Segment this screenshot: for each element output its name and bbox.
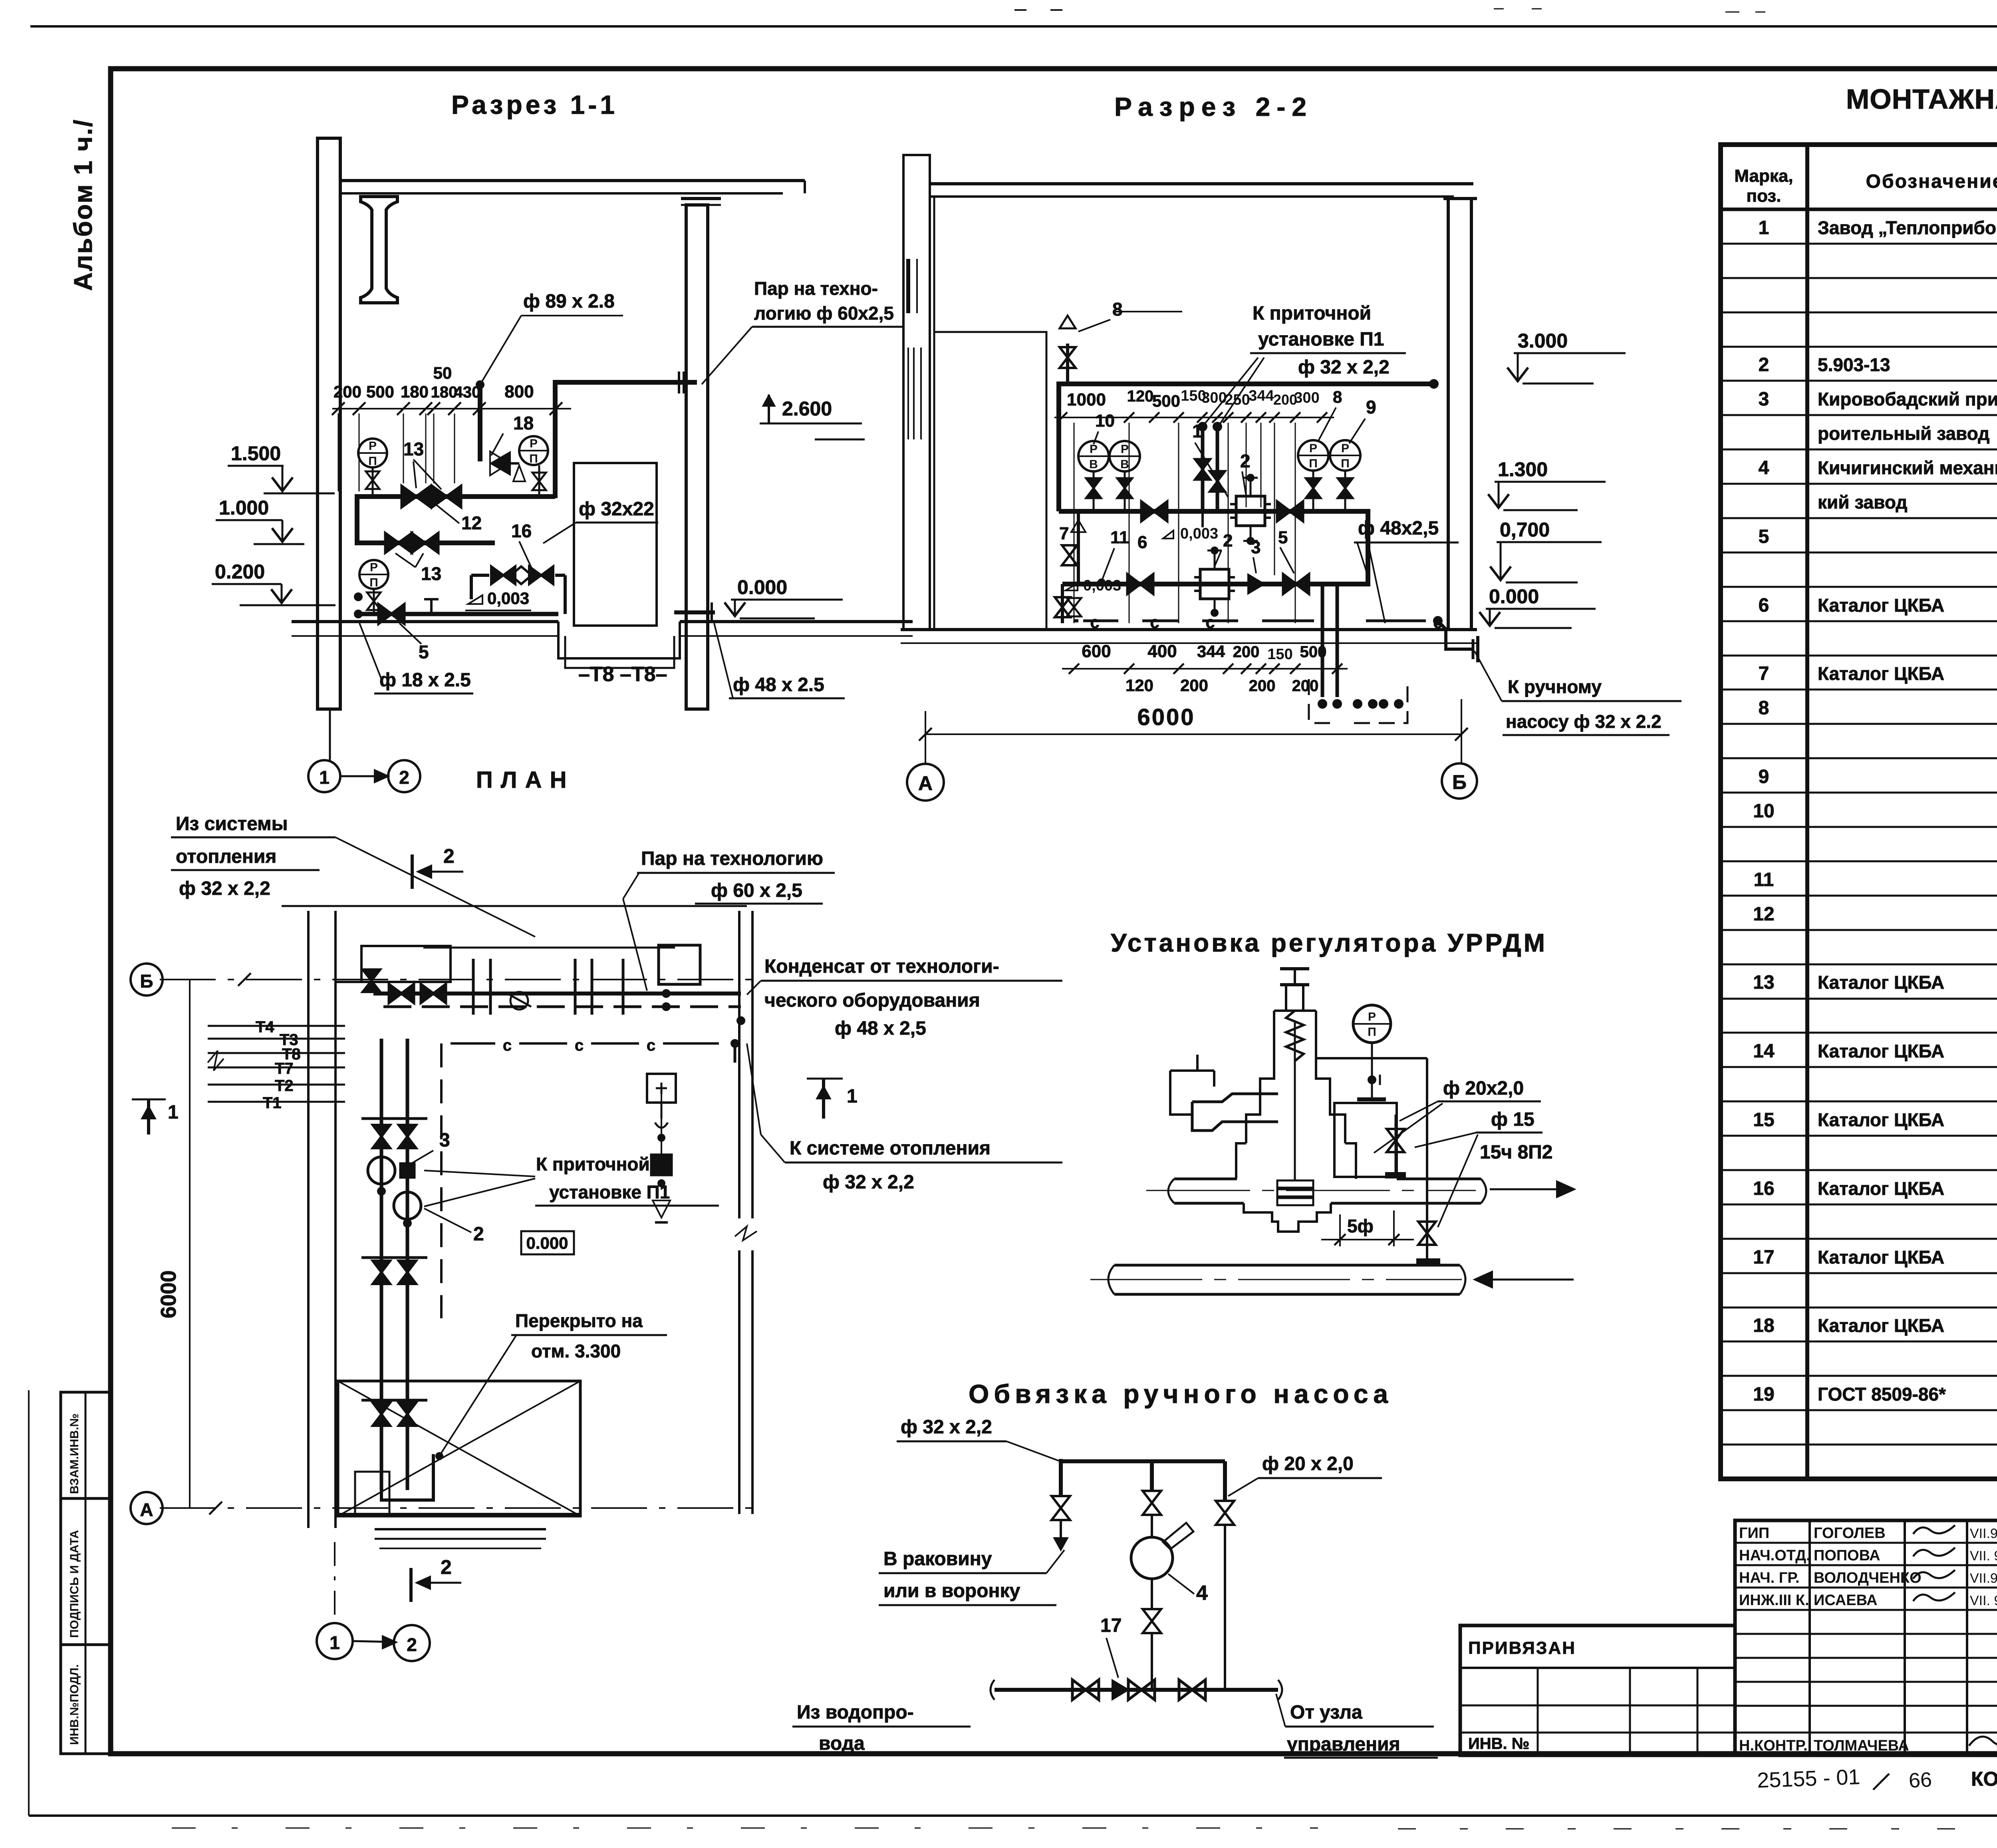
mud trap pos 2 box [1236,496,1265,526]
manifold risers [380,1039,383,1490]
valve on middle pipe [1141,502,1167,521]
svg-text:3: 3 [439,1130,450,1151]
svg-text:Марка,: Марка, [1734,166,1793,186]
svg-text:От узла: От узла [1290,1702,1362,1723]
pump pos 2 box lower [1200,569,1229,599]
steam pipe to right Пар на технологию [555,380,697,385]
left lower riser with safety [1077,511,1080,584]
svg-text:Конденсат от технологи-: Конденсат от технологи- [764,956,999,977]
dimension line 600 400 344 200 150 500 [1062,668,1348,670]
condensate trap assembly right [647,1074,676,1103]
pipe to right through trench [674,610,715,614]
dashed box with dots [1309,679,1330,723]
svg-text:8: 8 [1112,299,1123,320]
left drop to sink [1059,1459,1063,1496]
svg-text:2: 2 [407,1634,417,1655]
svg-text:500: 500 [366,382,394,401]
safety valve assembly pos 18 [490,451,509,475]
right drop [1223,1461,1227,1500]
svg-text:0,003: 0,003 [1180,525,1218,542]
svg-text:6: 6 [1137,533,1147,552]
svg-text:5.903-13: 5.903-13 [1818,354,1890,375]
svg-text:1: 1 [1192,421,1203,441]
svg-text:П: П [1309,457,1318,470]
svg-text:К приточной: К приточной [536,1154,650,1174]
svg-text:Т7: Т7 [275,1060,294,1077]
right column [686,205,708,709]
lower pipe level 0.700 [1062,582,1368,586]
pump top pipe [1061,1459,1225,1463]
left column lower extension [329,709,331,761]
svg-text:25155 - 01: 25155 - 01 [1757,1765,1860,1792]
svg-text:ИСАЕВА: ИСАЕВА [1814,1592,1878,1609]
svg-text:П: П [529,452,538,465]
svg-text:логию ф 60х2,5: логию ф 60х2,5 [754,303,894,324]
svg-text:5: 5 [1278,528,1288,547]
svg-text:2: 2 [473,1224,484,1245]
svg-text:200: 200 [1180,676,1208,695]
main pipe level 1.500 [357,494,555,499]
spec table header bottom line [1721,208,1997,211]
heat network pipes T lines [208,1025,345,1027]
dimension 6000 razrez2 [925,733,1461,735]
dimension line razrez2 [1054,417,1334,418]
spec table column lines [1805,145,1809,1479]
svg-text:ф 32 х 2,2: ф 32 х 2,2 [1298,357,1390,378]
plan right wall [738,911,740,1218]
svg-text:1: 1 [330,1632,340,1653]
svg-text:0.000: 0.000 [1489,585,1539,608]
section mark 2 upper [411,854,414,889]
svg-text:КОПИРОВАЛ : МАТВЕЕВА: КОПИРОВАЛ : МАТВЕЕВА [1971,1768,1997,1790]
svg-text:180: 180 [431,384,458,401]
dash line from tank to circle 1 [334,1542,335,1623]
manifold valves middle [373,1261,390,1284]
svg-text:200: 200 [333,382,361,401]
sheet outer border left line [28,1390,30,1816]
left stamp box ПОДПИСЬ И ДАТА [61,1498,111,1645]
svg-text:Каталог ЦКБА: Каталог ЦКБА [1818,1178,1944,1199]
actuator spring [1286,1011,1304,1061]
svg-text:ф 18 х 2.5: ф 18 х 2.5 [379,670,471,691]
plan bottom circles 1 2 [317,1623,353,1659]
svg-text:6000: 6000 [1137,704,1195,730]
svg-text:200: 200 [1273,391,1297,408]
svg-text:344: 344 [1249,387,1274,404]
svg-text:МОНТАЖНАЯ СПЕЦИФИКАЦИЯ И.Т.П: МОНТАЖНАЯ СПЕЦИФИКАЦИЯ И.Т.П. [1846,83,1997,115]
svg-text:ф 60 х 2,5: ф 60 х 2,5 [711,880,802,901]
section mark 1 left [132,1099,166,1101]
svg-text:Перекрыто на: Перекрыто на [515,1310,643,1331]
gauge PP left upper [358,439,387,467]
svg-text:10: 10 [1095,411,1115,431]
plan top boundary line [282,905,747,907]
pilot chamber left box [1170,1071,1192,1115]
feed risers to P1 [1201,427,1205,509]
ceiling beam [930,182,1473,185]
svg-text:4: 4 [1196,1582,1208,1605]
svg-text:ИНЖ.III К.: ИНЖ.III К. [1739,1592,1809,1609]
break mark on T lines [208,1051,224,1071]
svg-text:ф 20 х 2,0: ф 20 х 2,0 [1262,1453,1354,1474]
water meter circle pos 3 [368,1157,395,1184]
svg-text:Р: Р [1121,443,1129,456]
svg-text:18: 18 [513,413,534,433]
svg-text:К ручному: К ручному [1508,676,1602,697]
section mark 1 middle with arrow [807,1078,843,1080]
middle pipe level 1.300 [1059,509,1368,514]
grid circle Б razrez2 [1442,763,1477,799]
svg-text:с: с [647,1037,655,1054]
svg-text:установке П1: установке П1 [1258,329,1384,350]
small fittings on middle pipe [1201,509,1204,527]
svg-text:2: 2 [1759,354,1769,376]
svg-text:3.000: 3.000 [1518,330,1568,352]
privyazan box [1460,1625,1735,1755]
svg-text:Б: Б [1452,771,1467,793]
svg-text:ф 32 х 2,2: ф 32 х 2,2 [179,878,270,899]
svg-text:500: 500 [1300,643,1327,661]
svg-text:3: 3 [1759,389,1769,410]
svg-text:4: 4 [1759,457,1769,479]
gauge РП pair right [1298,440,1328,471]
svg-text:1.500: 1.500 [231,442,281,465]
svg-text:9: 9 [1366,397,1376,417]
svg-text:5: 5 [1759,526,1769,547]
svg-text:ф 32 х 2,2: ф 32 х 2,2 [823,1172,914,1193]
svg-text:0,003: 0,003 [487,589,529,608]
svg-text:300: 300 [1294,389,1319,406]
regulator body bottom [1244,1203,1331,1232]
svg-text:ИНВ. №: ИНВ. № [1468,1735,1529,1753]
tank rectangle with cross [338,1381,580,1516]
ceiling beam top chord [340,179,805,182]
svg-text:В раковину: В раковину [883,1548,992,1570]
foundation hatch below tank [375,1528,546,1530]
svg-text:6000: 6000 [157,1270,181,1318]
svg-text:установке П1: установке П1 [549,1182,670,1202]
svg-text:180: 180 [401,382,429,401]
svg-text:ф 48х2,5: ф 48х2,5 [1358,518,1439,539]
svg-text:–Т8 –Т8–: –Т8 –Т8– [578,663,667,686]
svg-text:2: 2 [1240,451,1251,471]
dimension line top of unit [332,408,571,409]
svg-text:Каталог ЦКБА: Каталог ЦКБА [1818,595,1944,616]
svg-text:Б: Б [140,971,153,992]
svg-text:Р: Р [1368,1010,1376,1023]
svg-text:ф 20х2,0: ф 20х2,0 [1443,1078,1524,1099]
title block signature table [1735,1520,1997,1755]
pipe trench T8 [558,622,680,658]
floor second line [292,635,558,637]
floor lines [901,628,1477,631]
sheet outer border top line [30,25,1997,28]
svg-text:6: 6 [1759,595,1769,616]
check valve pos 3 filled [1248,574,1264,594]
svg-text:Каталог ЦКБА: Каталог ЦКБА [1818,972,1944,993]
diaphragm chamber [1192,1094,1278,1102]
drain pipe level 0.200 [356,612,558,616]
svg-text:0.000: 0.000 [526,1234,568,1252]
svg-text:17: 17 [1753,1247,1774,1268]
leader kondensat to pipe [747,981,761,995]
svg-text:Каталог ЦКБА: Каталог ЦКБА [1818,1041,1944,1061]
scan artifact dashes bottom edge [172,1828,1318,1829]
svg-text:поз.: поз. [1747,186,1781,206]
svg-text:НАЧ.ОТД.: НАЧ.ОТД. [1739,1547,1810,1564]
svg-text:1: 1 [168,1102,179,1123]
svg-text:9: 9 [1759,766,1769,787]
svg-text:насосу ф 32 х 2.2: насосу ф 32 х 2.2 [1506,711,1662,732]
svg-text:VII. 91: VII. 91 [1970,1548,1997,1564]
plan header circles 1 and 2 [308,760,340,792]
middle drop [1150,1461,1154,1490]
svg-text:16: 16 [511,521,532,541]
manifold valves lower [373,1403,390,1426]
svg-text:ф 48 х 2.5: ф 48 х 2.5 [733,674,824,695]
svg-text:П: П [1341,457,1350,470]
pump bottom pipe [995,1688,1278,1692]
svg-text:344: 344 [1197,642,1225,661]
plan right vertical pipe [734,1043,736,1063]
svg-text:Из системы: Из системы [176,813,288,835]
condensate trap row [491,566,515,584]
svg-text:12: 12 [1753,904,1774,925]
svg-text:1000: 1000 [1067,390,1106,409]
left wall inner lines [906,259,910,313]
valve pos 5 [379,604,404,624]
svg-text:1.000: 1.000 [219,497,269,519]
svg-text:Каталог ЦКБА: Каталог ЦКБА [1818,1315,1944,1336]
leaders to feed risers [1203,358,1258,425]
gauge PP second [519,436,548,465]
pipe end flange [678,372,680,393]
svg-text:VII.91: VII.91 [1970,1571,1997,1586]
leader from iz sistemy to riser [335,837,535,937]
grid line А dash-dot [160,1507,759,1509]
left downfeed [1056,382,1061,511]
svg-text:12: 12 [461,513,482,533]
svg-text:VII. 91: VII. 91 [1970,1593,1997,1608]
outlet box [1334,1103,1397,1177]
svg-text:НАЧ. ГР.: НАЧ. ГР. [1739,1570,1800,1586]
svg-text:7: 7 [1759,663,1769,684]
condensate drop to fitting [1438,621,1473,649]
svg-text:Из водопро-: Из водопро- [797,1702,914,1723]
svg-text:А: А [140,1499,153,1520]
valve internals stack [1277,1180,1313,1188]
svg-text:3: 3 [1251,538,1261,557]
lower pipe centerline and flow arrow [1090,1279,1462,1280]
scan artifact dashes top edge [1014,9,1086,11]
pump circle pos 2 [394,1192,421,1219]
svg-text:13: 13 [421,563,441,584]
svg-text:18: 18 [1753,1315,1774,1336]
equipment outline box [574,463,657,626]
plan top wall details [335,981,451,983]
gate valve wedge on middle pipe [1277,502,1303,521]
svg-text:с: с [1150,613,1159,632]
svg-text:ПРИВЯЗАН: ПРИВЯЗАН [1468,1638,1576,1658]
svg-text:120: 120 [1127,387,1154,405]
leader 11 to fitting [1102,548,1114,579]
grid circle Б plan [131,964,163,996]
dimension guides [338,413,339,491]
svg-text:Р: Р [1090,443,1098,456]
guides from dim line down [1074,423,1075,623]
svg-text:Обозначение: Обозначение [1866,171,1997,192]
left wall [903,155,930,630]
svg-text:Пар на техно-: Пар на техно- [754,278,878,299]
svg-text:К приточной: К приточной [1253,303,1371,324]
leader to tank [441,1335,516,1454]
svg-text:с: с [503,1037,512,1054]
svg-text:кий завод: кий завод [1818,492,1908,513]
svg-text:2: 2 [399,767,409,788]
floor line right segment [680,620,913,623]
svg-text:Р: Р [1309,442,1317,455]
svg-text:Каталог ЦКБА: Каталог ЦКБА [1818,1247,1944,1268]
svg-text:Р: Р [1341,442,1349,455]
svg-text:с: с [1205,613,1215,632]
svg-text:Установка регулятора УРРДМ: Установка регулятора УРРДМ [1111,928,1547,957]
svg-text:1: 1 [319,767,330,788]
svg-text:200: 200 [1249,677,1276,695]
svg-text:П: П [1368,1025,1376,1039]
valve 13 pair on main pipe [402,486,431,507]
plan left wall [307,911,310,1528]
leader k sisteme [761,1135,785,1162]
floor line left segment [292,620,558,623]
svg-text:Разрез 1-1: Разрез 1-1 [451,90,618,119]
svg-text:ческого оборудования: ческого оборудования [764,990,980,1011]
plan bottom section mark 2 [409,1568,413,1602]
actuator top tee [1280,983,1309,986]
svg-text:0,700: 0,700 [1500,519,1550,541]
svg-text:2.600: 2.600 [782,397,832,420]
svg-text:10: 10 [1753,801,1774,822]
ceiling beam bottom chord [340,192,783,195]
upper pipeline double [1174,1178,1237,1180]
svg-text:К системе отопления: К системе отопления [790,1138,991,1159]
svg-text:ВЗАМ.ИНВ.№: ВЗАМ.ИНВ.№ [68,1413,81,1494]
svg-text:400: 400 [1147,642,1177,661]
svg-text:Кировобадский приборост-: Кировобадский приборост- [1818,389,1997,409]
svg-text:ф 89 х 2.8: ф 89 х 2.8 [523,291,615,312]
svg-text:13: 13 [403,439,424,459]
svg-text:14: 14 [1753,1041,1775,1062]
svg-text:ПОПОВА: ПОПОВА [1814,1547,1880,1564]
svg-text:1.300: 1.300 [1498,458,1548,481]
svg-text:ГОГОЛЕВ: ГОГОЛЕВ [1814,1525,1886,1542]
svg-text:17: 17 [1100,1615,1122,1636]
main steam pipe +3.000 [1059,382,1434,386]
gauge РВ pair left [1078,441,1109,471]
svg-text:ф 48 х 2,5: ф 48 х 2,5 [835,1018,926,1039]
svg-text:0.200: 0.200 [215,560,265,583]
sheet outer border bottom line [29,1814,1997,1817]
drain line with valve ф20 [1395,1115,1397,1174]
plan top pipe valves [389,984,414,1003]
svg-text:ГИП: ГИП [1739,1525,1769,1542]
svg-text:Т4: Т4 [256,1018,274,1036]
svg-text:ВОЛОДЧЕНКО: ВОЛОДЧЕНКО [1814,1570,1922,1586]
boxed level 0.000 plan [521,1231,574,1254]
grid line Б dash-dot [160,979,759,980]
svg-text:150: 150 [1267,646,1292,663]
upper pipe centerline and flow arrow [1146,1190,1476,1191]
svg-text:8: 8 [1759,697,1769,719]
svg-text:Завод „Теплоприбор": Завод „Теплоприбор" [1818,217,1997,238]
svg-text:вода: вода [819,1733,865,1754]
svg-text:Р: Р [370,561,378,574]
svg-text:1: 1 [1759,217,1769,238]
svg-text:отм. 3.300: отм. 3.300 [531,1341,621,1361]
gauge PP lower [359,560,388,589]
left stamp box ВЗАМ.ИНВ.№ [61,1392,111,1498]
regulator stem cap [1280,967,1309,970]
svg-text:Т1: Т1 [263,1094,282,1112]
grid circle А razrez2 [907,764,944,801]
right risers to floor dots [1321,584,1324,697]
svg-text:11: 11 [1110,528,1129,547]
svg-text:15ч 8П2: 15ч 8П2 [1480,1142,1552,1163]
svg-text:П Л А Н: П Л А Н [476,767,568,793]
plan right column top [659,945,700,984]
dashed return line plan [440,1043,443,1318]
svg-text:600: 600 [1082,642,1111,661]
svg-text:с: с [575,1037,584,1054]
svg-text:0.000: 0.000 [737,576,787,598]
tank inner small rect [355,1472,389,1516]
svg-text:VII.91: VII.91 [1970,1526,1997,1541]
left column wall [318,138,340,709]
svg-text:отопления: отопления [176,846,276,867]
svg-text:0,003: 0,003 [1083,577,1121,594]
svg-text:Т2: Т2 [275,1077,294,1095]
svg-text:ф 15: ф 15 [1491,1109,1534,1130]
leader ф 89 х 2.8 [480,316,521,385]
leaders to risers plan [424,1170,535,1176]
spec table row lines [1721,243,1997,245]
svg-text:19: 19 [1753,1384,1774,1405]
pump lower valve [1151,1579,1153,1609]
spec table outer border [1721,145,1997,1479]
svg-text:7: 7 [1059,524,1069,543]
right column cap [681,197,721,200]
svg-text:50: 50 [433,364,452,382]
svg-text:13: 13 [1753,972,1774,993]
svg-text:11: 11 [1754,869,1774,890]
svg-text:с: с [1090,613,1099,632]
svg-text:300: 300 [1201,389,1227,406]
plan bottom wall [335,1513,580,1515]
impulse line to lower pipe [1316,1057,1427,1059]
svg-text:15: 15 [1753,1109,1774,1131]
lower pipeline double [1114,1264,1460,1267]
actuator bonnet outline [1246,1011,1274,1143]
I-beam hanger [361,197,397,303]
second pipe level 1.000 [357,540,495,545]
steam riser ф89х2.8 with node dot [478,385,482,461]
svg-text:5ф: 5ф [1347,1216,1374,1236]
svg-text:500: 500 [1152,391,1180,410]
svg-text:ИНВ.№ПОДЛ.: ИНВ.№ПОДЛ. [68,1664,81,1745]
svg-text:800: 800 [504,382,534,401]
svg-text:ф 32 х 2,2: ф 32 х 2,2 [901,1417,992,1438]
manifold bottom U pipe [381,1454,433,1500]
vertical dim 6000 plan [189,980,191,1508]
